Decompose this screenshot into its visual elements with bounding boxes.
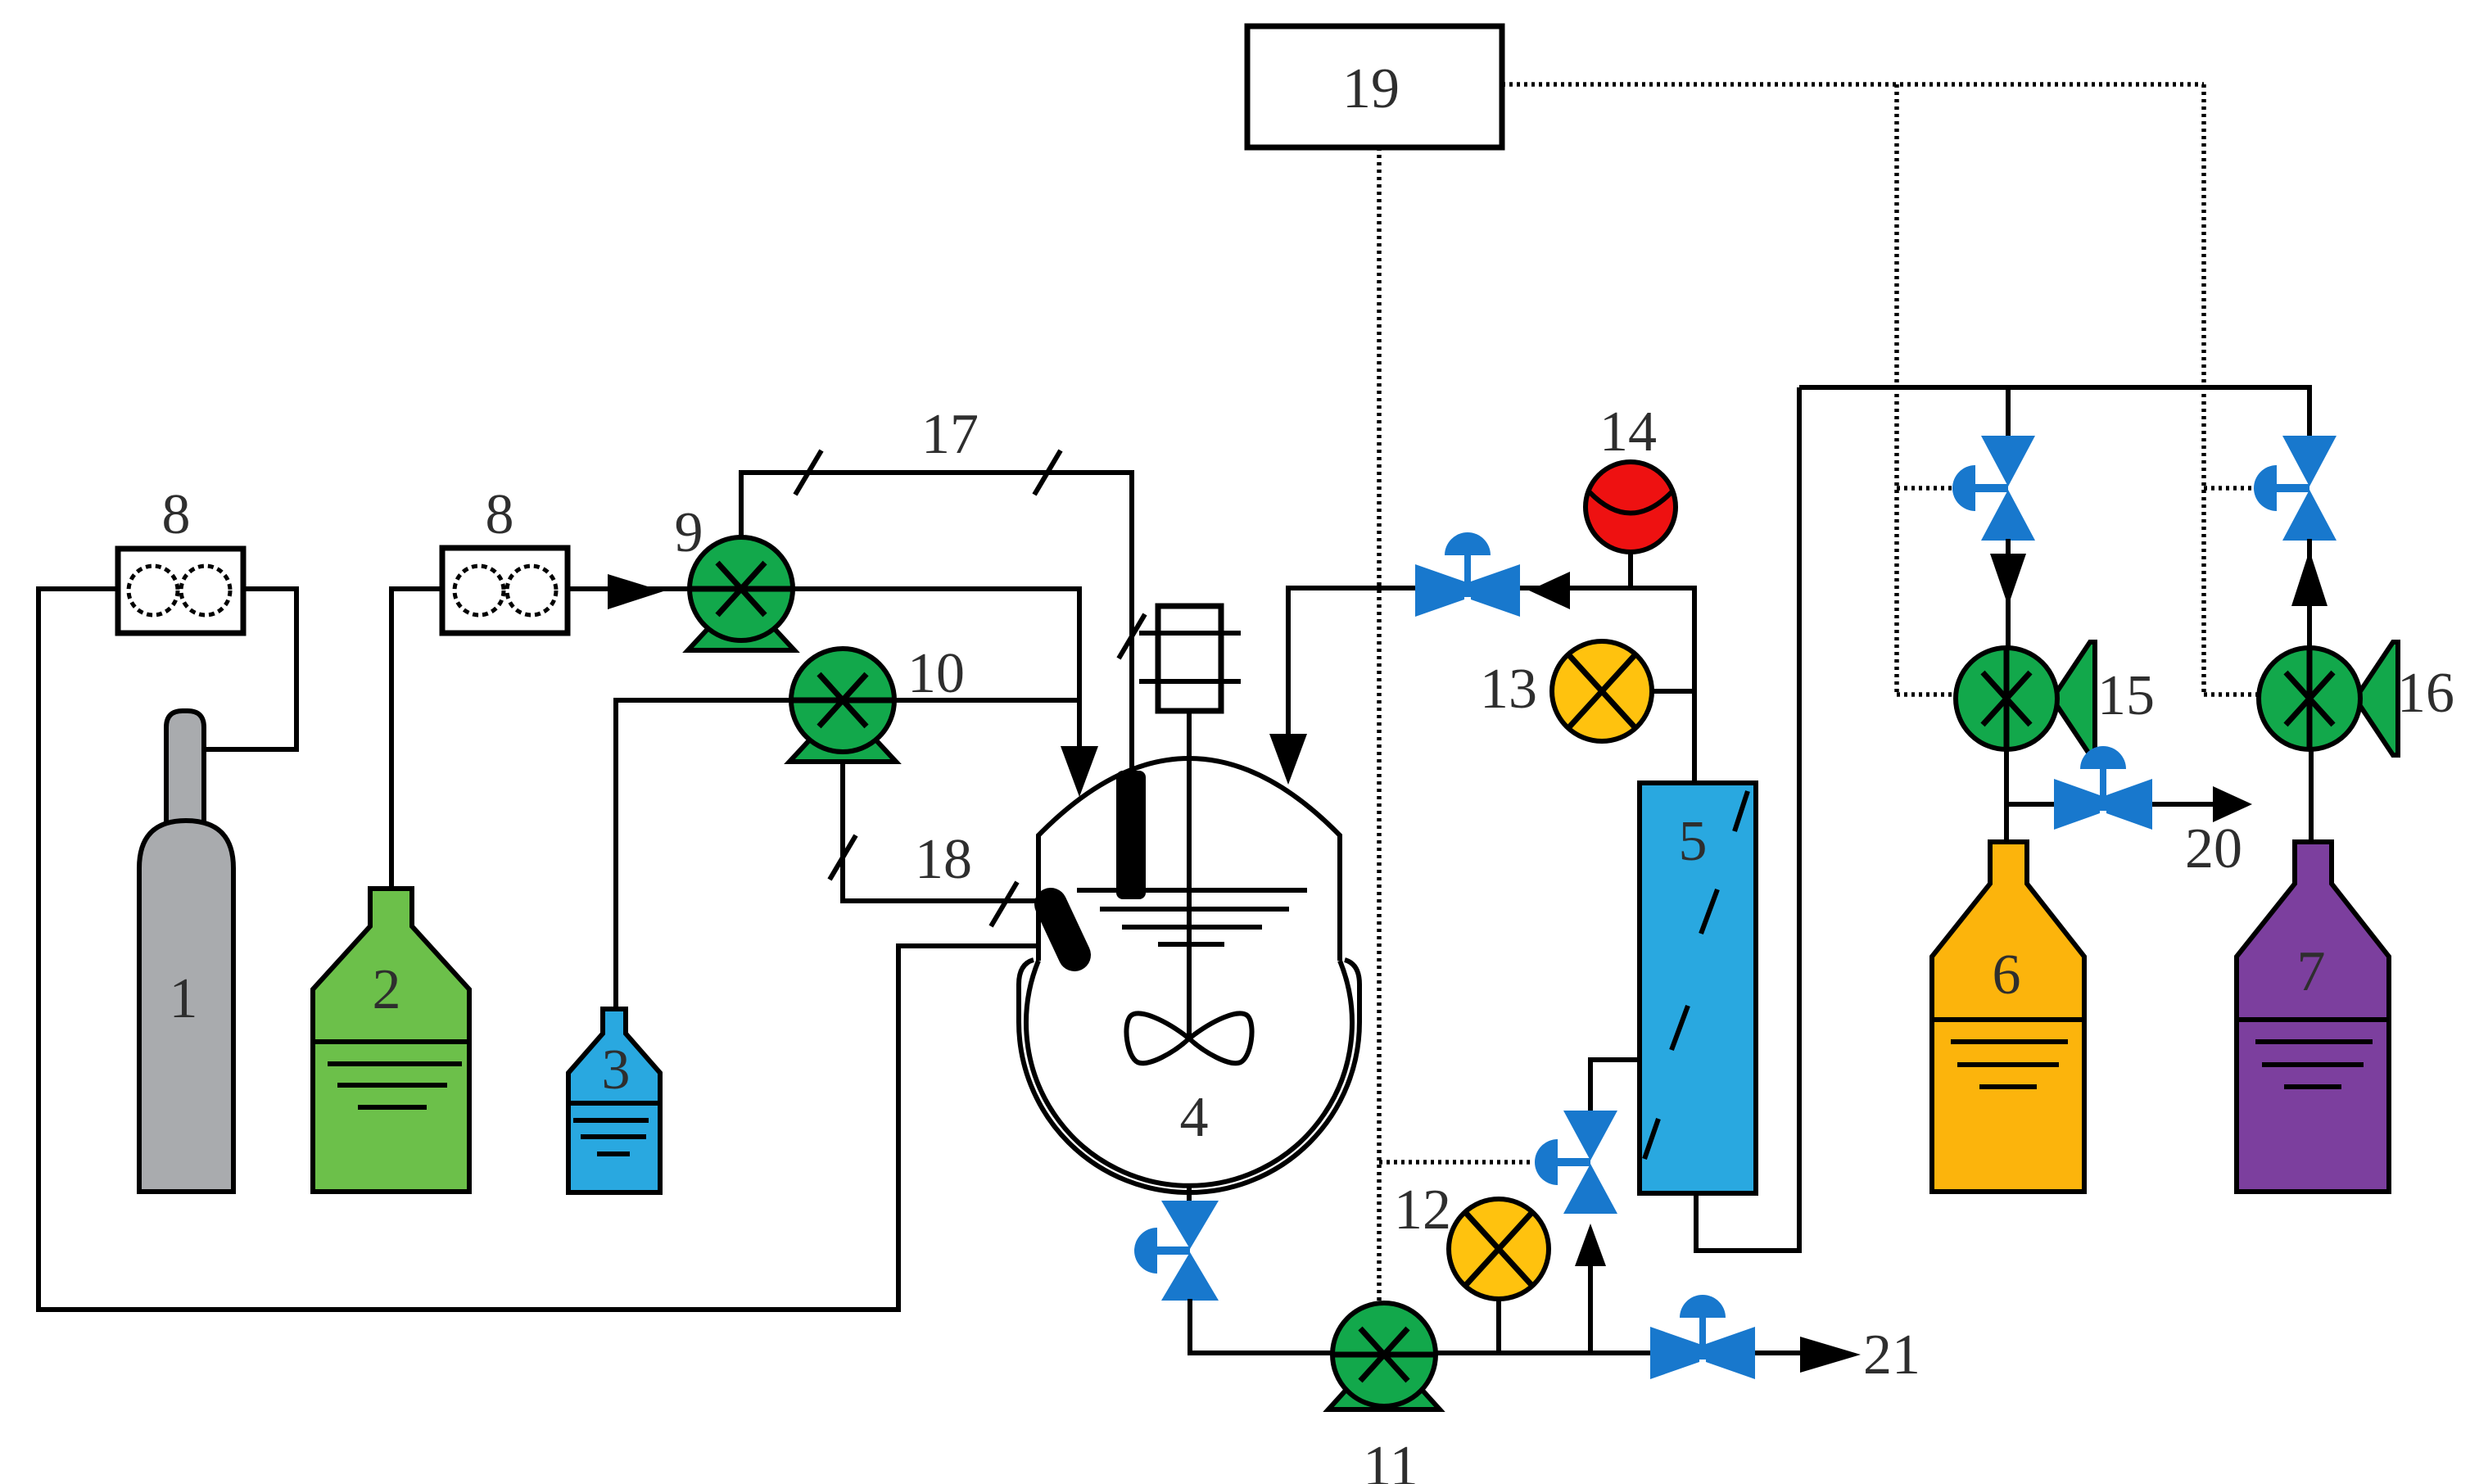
svg-text:10: 10 bbox=[907, 642, 965, 705]
wire: branch to sample valve 20 bbox=[2006, 802, 2054, 807]
tick on line 17 left bbox=[795, 450, 821, 495]
pump 9 bbox=[690, 537, 793, 640]
stirrer shaft bbox=[1187, 711, 1192, 1038]
pump 16 spokes bbox=[2286, 648, 2333, 749]
wire: line 17 from pump 9 top to reactor dome bbox=[741, 473, 1132, 770]
pump 15 spokes bbox=[1983, 648, 2030, 749]
control line (dotted): box 19 right to right section bbox=[1502, 82, 2204, 87]
wire: bottle 2 to flowmeter 8b bbox=[391, 589, 442, 889]
svg-text:7: 7 bbox=[2297, 940, 2326, 1003]
tick on line 18 horizontal bbox=[991, 882, 1017, 926]
control line (dotted): to pump 15 bbox=[1897, 692, 1956, 697]
sensor 12 (yellow) bbox=[1449, 1199, 1549, 1299]
svg-text:1: 1 bbox=[170, 967, 198, 1030]
liquid level lines in reactor bbox=[1077, 888, 1307, 893]
control line (dotted): to pump 16 bbox=[2204, 692, 2259, 697]
bottle 6 liquid level lines bbox=[1932, 1017, 2084, 1022]
svg-text:14: 14 bbox=[1599, 400, 1657, 464]
bottle 2 liquid level lines bbox=[313, 1039, 469, 1044]
wire: loop from flowmeter 8a left side down, along bottom, up to reactor lower-left port bbox=[38, 589, 1038, 1310]
svg-text:19: 19 bbox=[1342, 57, 1400, 120]
valve above pump 15 (blue, handle left) bbox=[1952, 436, 2035, 541]
vertical probe in reactor bbox=[1116, 771, 1146, 899]
wire: recycle line from column top to reactor bbox=[1288, 588, 1694, 783]
svg-text:15: 15 bbox=[2097, 664, 2155, 727]
bottle 2 (green) bbox=[313, 889, 469, 1192]
svg-text:4: 4 bbox=[1180, 1086, 1209, 1149]
reactor 4 jacket bbox=[1019, 960, 1359, 1192]
svg-text:5: 5 bbox=[1679, 810, 1708, 873]
gas cylinder 1 body bbox=[139, 821, 233, 1192]
sensor 12 X bbox=[1465, 1212, 1532, 1286]
control line (dotted): to valve 16 handle bbox=[2204, 486, 2255, 491]
wire: column left port to valve riser bbox=[1590, 1060, 1640, 1111]
pump 11 bbox=[1332, 1303, 1436, 1406]
wire: sensor 13 stub to column riser bbox=[1652, 689, 1694, 694]
svg-text:20: 20 bbox=[2185, 817, 2242, 880]
arrow 21 outlet bbox=[1800, 1337, 1861, 1373]
svg-text:8: 8 bbox=[486, 483, 514, 546]
pump 9 base bbox=[688, 628, 794, 650]
flowmeter 8b circle right bbox=[507, 566, 556, 615]
drain valve 21 (blue, umbrella handle) bbox=[1650, 1295, 1755, 1379]
bottle 7 (purple) bbox=[2237, 842, 2389, 1192]
control line (dotted): branch to valve at column bottom bbox=[1379, 1160, 1533, 1165]
wire: valve 20 outlet bbox=[2152, 802, 2221, 807]
sample valve 20 (blue, umbrella handle) bbox=[2054, 746, 2152, 830]
arrow on recycle line pointing left bbox=[1529, 572, 1570, 609]
pump 10 spokes bbox=[791, 674, 894, 726]
flowmeter 8b box bbox=[442, 548, 568, 633]
reactor 4 vessel body bbox=[1026, 758, 1352, 1186]
valve below column (blue, handle left) bbox=[1535, 1111, 1617, 1214]
bottle 6 (amber) bbox=[1932, 842, 2084, 1192]
flowmeter 8a circle right bbox=[181, 566, 230, 615]
sensor 13 (yellow) bbox=[1552, 641, 1652, 741]
membrane column 5 bbox=[1640, 783, 1756, 1193]
svg-text:6: 6 bbox=[1993, 943, 2021, 1007]
tick on line 17 vertical bbox=[1119, 614, 1145, 658]
arrow up into valve 16 bbox=[2291, 550, 2327, 606]
wire: top header line to both branch valves bbox=[1799, 387, 2309, 437]
control line (dotted): vertical to pump 16 branch bbox=[2201, 84, 2206, 694]
impeller right lobe bbox=[1189, 1013, 1252, 1063]
wire: bottle 7 up to pump 16 bbox=[2309, 749, 2314, 842]
wire: column bottom to right riser bbox=[1696, 387, 1799, 1251]
wire: pump 11 outlet to drain valve 21 bbox=[1436, 1351, 1650, 1355]
bottle 3 (blue) bbox=[568, 1009, 660, 1192]
wire: valve 21 outlet bbox=[1755, 1351, 1810, 1355]
column 5 membrane dashes bbox=[1644, 791, 1748, 1159]
sensor 13 X bbox=[1568, 654, 1635, 728]
wire: bottle 3 riser to pump 10 inlet bbox=[616, 700, 791, 1009]
pump 10 base bbox=[789, 740, 896, 762]
svg-text:8: 8 bbox=[162, 483, 191, 546]
wire: flowmeter 8a to cylinder 1 neck bbox=[204, 589, 296, 749]
wire: line 18 from pump 10 bottom to reactor bbox=[843, 762, 1038, 901]
arrow into reactor dome (right) bbox=[1269, 734, 1307, 785]
arrow into reactor dome (left) bbox=[1061, 746, 1098, 797]
motor box upper line bbox=[1139, 631, 1241, 636]
svg-text:16: 16 bbox=[2397, 662, 2454, 725]
pump 9 spokes bbox=[690, 563, 793, 615]
wire: pump 10 outlet joins riser bbox=[894, 698, 1079, 703]
svg-text:13: 13 bbox=[1480, 658, 1537, 721]
flowmeter 8b circle left bbox=[455, 566, 504, 615]
valve below reactor (blue, handle left) bbox=[1134, 1201, 1219, 1301]
gas cylinder 1 neck bbox=[166, 711, 204, 826]
svg-text:11: 11 bbox=[1363, 1435, 1418, 1484]
control line (dotted): vertical to pump 15 branch bbox=[1894, 84, 1899, 694]
pump 10 bbox=[791, 649, 894, 752]
wire: flowmeter 8b to pump 9 bbox=[568, 586, 690, 591]
reactor outlet stub bbox=[1187, 1185, 1192, 1202]
pump 15 bbox=[1956, 648, 2057, 749]
pump 16 cone bbox=[2355, 642, 2398, 755]
svg-text:21: 21 bbox=[1863, 1323, 1920, 1387]
pump 11 base bbox=[1328, 1384, 1440, 1409]
wire: reactor outlet valve to pump 11 bbox=[1190, 1299, 1332, 1353]
control line (dotted): box 19 bottom down to pump 11 bbox=[1377, 147, 1382, 1303]
svg-text:2: 2 bbox=[373, 958, 401, 1021]
arrow 20 outlet bbox=[2213, 786, 2252, 822]
wire: sensor 14 stub bbox=[1628, 552, 1633, 588]
wire: pump 16 up to valve bbox=[2307, 539, 2312, 650]
diagonal probe in reactor bbox=[1051, 904, 1074, 955]
svg-text:17: 17 bbox=[921, 403, 979, 466]
svg-text:18: 18 bbox=[915, 828, 972, 891]
tick on line 17 right bbox=[1034, 450, 1061, 495]
pressure sensor 14 (red) bbox=[1586, 462, 1676, 552]
controller box 19 bbox=[1247, 26, 1502, 147]
svg-text:9: 9 bbox=[675, 501, 703, 564]
pump 15 cone bbox=[2052, 642, 2095, 755]
wire: pump 15 down to bottle 6 bbox=[2004, 749, 2009, 842]
bottle 7 liquid level lines bbox=[2237, 1017, 2389, 1022]
svg-text:12: 12 bbox=[1394, 1179, 1451, 1242]
pump 11 spokes bbox=[1332, 1328, 1436, 1381]
arrow into pump 9 bbox=[608, 574, 663, 609]
flowmeter 8a circle left bbox=[129, 566, 178, 615]
tick on line 18 vertical bbox=[830, 835, 856, 880]
pump 16 bbox=[2259, 648, 2360, 749]
bottle 3 liquid level lines bbox=[568, 1101, 660, 1106]
flowmeter 8a box bbox=[118, 549, 243, 633]
wire: riser from pump outlet line up to valve bbox=[1588, 1265, 1593, 1353]
wire: valve to pump 15 bbox=[2006, 539, 2011, 650]
motor box above reactor bbox=[1158, 606, 1221, 711]
motor box lower line bbox=[1139, 679, 1241, 684]
arrow up into valve below column bbox=[1575, 1224, 1606, 1266]
valve above pump 16 (blue, handle left) bbox=[2254, 436, 2337, 541]
arrow down into pump 15 bbox=[1990, 554, 2026, 606]
sensor 14 inner arc bbox=[1590, 492, 1672, 514]
valve on recycle line (blue, umbrella handle) bbox=[1415, 532, 1520, 617]
wire: branch riser to valve above pump 15 bbox=[2006, 387, 2011, 437]
wire: pump 9 outlet to reactor dome arrow bbox=[793, 589, 1079, 748]
wire: sensor 12 stub bbox=[1496, 1299, 1501, 1353]
impeller left lobe bbox=[1126, 1013, 1189, 1063]
control line (dotted): to valve 15 handle bbox=[1897, 486, 1954, 491]
svg-text:3: 3 bbox=[602, 1038, 631, 1102]
